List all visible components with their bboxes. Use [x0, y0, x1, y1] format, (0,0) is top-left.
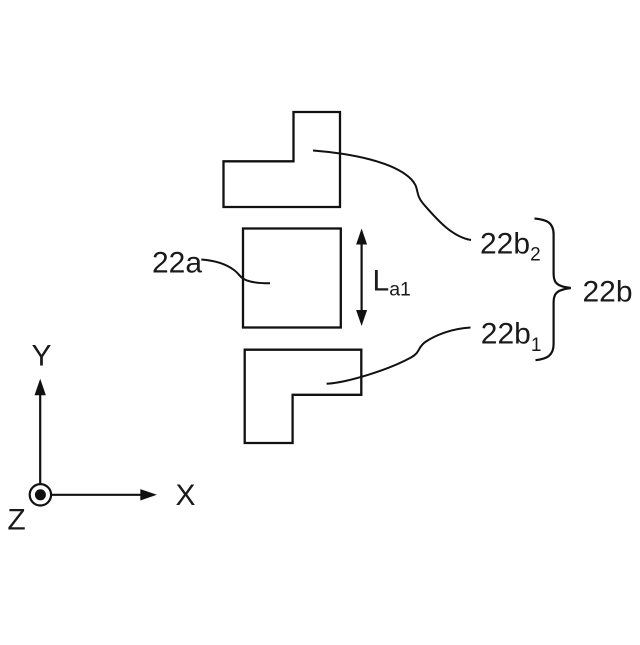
svg-text:22b: 22b: [583, 275, 633, 308]
svg-text:Z: Z: [7, 504, 25, 537]
block 22b2 (top L-shape): [224, 112, 341, 207]
coordinate origin (Z axis out of page): [30, 484, 51, 505]
block 22b1 (bottom L-shape): [245, 350, 362, 443]
svg-text:Y: Y: [31, 340, 51, 373]
svg-text:22a: 22a: [152, 247, 202, 280]
leader line to 22b1: [327, 328, 471, 384]
leader line to 22b2: [313, 151, 471, 241]
svg-text:X: X: [175, 479, 195, 512]
brace grouping 22b1 and 22b2: [535, 219, 571, 361]
Y axis: [35, 379, 46, 484]
block 22a (middle square): [243, 229, 341, 328]
leader line to 22a: [201, 260, 270, 284]
X axis: [52, 489, 157, 500]
dimension arrow La1 (double-headed vertical): [356, 229, 367, 327]
